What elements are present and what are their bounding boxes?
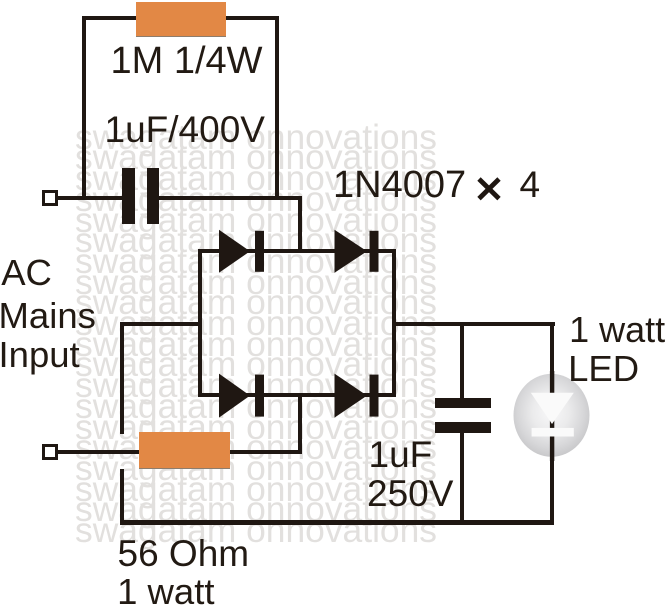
watermark rows "swagatam onnovations" (75, 127, 437, 541)
wire DC minus vertical lower (120, 469, 124, 525)
label LED (568, 351, 639, 388)
diode D1 bridge top-left (217, 228, 267, 276)
wire terminal2 to R2 (58, 450, 140, 454)
wire R2 to bridge AC2 (229, 450, 302, 454)
label 1 watt (LED) (569, 312, 665, 348)
multiply sign (476, 176, 502, 202)
label 1N4007 (333, 166, 466, 204)
diode D4 bridge bottom-right (332, 372, 382, 420)
LED lamp symbol (505, 368, 599, 464)
wire C2 branch lower (460, 432, 464, 525)
wire bottom rail (120, 520, 554, 525)
terminal input 1 (42, 190, 58, 206)
label 250V (367, 475, 453, 512)
wire bridge AC1 entry vertical (298, 196, 302, 253)
diode D2 bridge top-right (332, 228, 382, 276)
capacitor C2 top plate (435, 398, 491, 408)
label 56 Ohm (118, 535, 250, 572)
wire bridge bottom edge (198, 393, 397, 397)
label 1M 1/4W (111, 42, 263, 80)
wire top loop left vertical (82, 16, 86, 200)
wire top loop right vertical (275, 16, 279, 200)
resistor R1 1M 1/4W (136, 2, 226, 37)
wire C2 branch upper (460, 322, 464, 399)
label AC (1, 255, 52, 292)
wire terminal1 to capacitor C1 (58, 196, 128, 200)
diode D3 bridge bottom-left (217, 372, 267, 420)
wire bridge right output (394, 322, 555, 326)
terminal input 2 (42, 444, 58, 460)
capacitor C1 left plate (122, 168, 135, 224)
capacitor C2 bottom plate (435, 422, 491, 433)
wire LED branch vertical (550, 322, 554, 524)
wire bridge left edge (198, 249, 202, 397)
label 1 watt (R2) (117, 574, 214, 607)
label 1uF (369, 436, 433, 473)
label Mains (0, 298, 96, 335)
label Input (0, 337, 80, 374)
label 4 (520, 166, 541, 203)
wire bridge top edge (198, 249, 397, 253)
wire bridge left output (120, 322, 202, 326)
wire bridge right edge (392, 249, 396, 397)
wire C1 to bridge top entry (152, 196, 302, 200)
label 1uF/400V (105, 111, 265, 148)
wire bridge AC2 entry vertical (298, 395, 302, 454)
wire DC minus vertical upper (120, 322, 124, 434)
wire top loop horizontal (82, 16, 279, 20)
resistor R2 56 Ohm (139, 432, 230, 469)
capacitor C1 right plate (147, 168, 160, 224)
